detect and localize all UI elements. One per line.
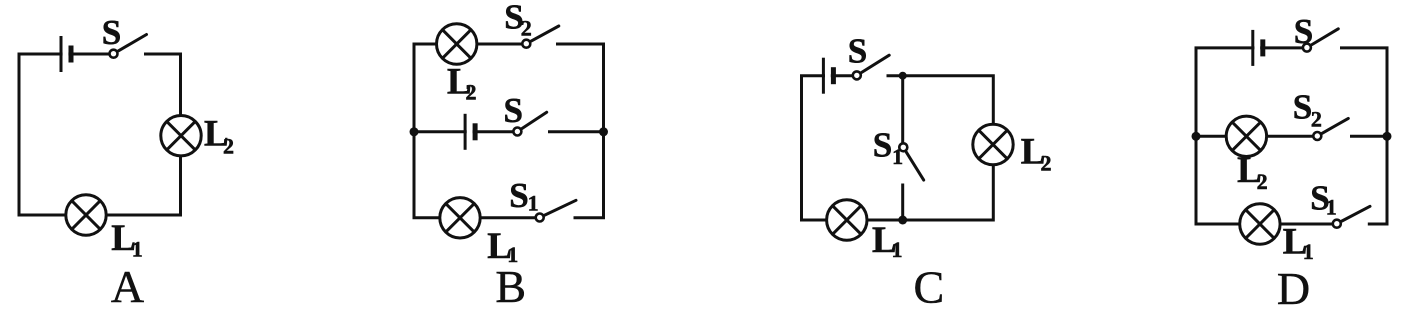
svg-text:2: 2 — [466, 80, 477, 105]
svg-text:S: S — [873, 126, 892, 165]
svg-text:S: S — [504, 91, 523, 130]
svg-text:1: 1 — [132, 237, 143, 262]
svg-text:S: S — [1294, 12, 1313, 51]
svg-text:B: B — [495, 261, 526, 305]
svg-text:S: S — [509, 176, 528, 215]
svg-text:S: S — [1293, 88, 1312, 127]
svg-text:2: 2 — [223, 134, 234, 159]
svg-text:C: C — [914, 261, 945, 305]
svg-text:1: 1 — [528, 191, 539, 216]
svg-text:S: S — [102, 13, 121, 52]
svg-text:S: S — [848, 32, 867, 71]
svg-text:1: 1 — [892, 144, 903, 169]
svg-text:2: 2 — [1041, 151, 1052, 176]
svg-text:D: D — [1277, 263, 1310, 305]
svg-text:1: 1 — [1326, 194, 1337, 219]
svg-text:2: 2 — [1257, 169, 1268, 194]
svg-text:1: 1 — [892, 237, 903, 262]
svg-text:2: 2 — [521, 16, 532, 41]
svg-text:A: A — [111, 261, 144, 305]
svg-text:1: 1 — [1303, 239, 1314, 264]
svg-text:2: 2 — [1311, 107, 1322, 132]
